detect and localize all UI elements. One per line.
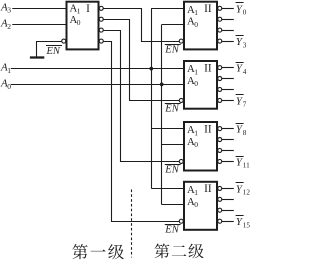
U4 output pin bubble 2 xyxy=(218,148,222,152)
U1 output pin bubble 1 xyxy=(99,17,103,21)
wire U5 output stub 2 xyxy=(222,210,234,212)
overline of EN-bar (U3) xyxy=(165,103,181,105)
decoder U2 (stage II 2-to-4, outputs Y0-Y3) body xyxy=(184,2,217,50)
U2 output pin bubble 1 xyxy=(218,17,222,21)
wire A0 branch to U5.A0 xyxy=(162,204,184,206)
overline of EN-bar (stage I) xyxy=(46,45,62,47)
wire U3 output stub 2 xyxy=(222,89,234,91)
svg-text:0: 0 xyxy=(194,20,198,29)
U2 output pin bubble 3 xyxy=(218,39,222,43)
U4 output pin bubble 1 xyxy=(218,138,222,142)
wire U5 output stub 3 xyxy=(222,221,234,223)
overline of Y3-bar xyxy=(236,35,244,37)
wire A0 branch vertical xyxy=(161,25,163,205)
U5 output pin bubble 2 xyxy=(218,208,222,212)
overline of Y11-bar xyxy=(236,156,244,158)
U3 output pin bubble 3 xyxy=(218,98,222,102)
svg-text:1: 1 xyxy=(194,67,198,76)
overline of Y0-bar xyxy=(236,2,244,4)
wire A0 bus horizontal xyxy=(11,84,184,86)
decoder U5 (stage II 2-to-4, outputs Y12-Y15) body xyxy=(184,182,217,230)
U4 EN input bubble xyxy=(179,159,183,163)
caption: second stage (di-er-ji) xyxy=(155,244,204,259)
svg-text:EN: EN xyxy=(164,104,179,115)
wire U1.Y1 to U3.EN xyxy=(103,20,179,101)
svg-text:II: II xyxy=(204,62,212,74)
svg-text:I: I xyxy=(86,3,90,15)
U5 output pin bubble 1 xyxy=(218,197,222,201)
svg-text:II: II xyxy=(204,3,212,15)
svg-text:II: II xyxy=(204,123,212,135)
svg-text:EN: EN xyxy=(164,165,179,176)
overline of Y4-bar xyxy=(236,62,244,64)
wire U3 output stub 0 xyxy=(222,67,234,69)
svg-text:0: 0 xyxy=(194,79,198,88)
wire U2 output stub 2 xyxy=(222,30,234,32)
decoder U3 (stage II 2-to-4, outputs Y4-Y7) body xyxy=(184,61,217,109)
wire U2 output stub 0 xyxy=(222,8,234,10)
U5 EN input bubble xyxy=(179,219,183,223)
wire A0 branch to U2.A0 xyxy=(162,24,184,26)
wire U1.Y2 to U4.EN xyxy=(103,31,179,162)
U2 output pin bubble 0 xyxy=(218,6,222,10)
wire A2 to U1.A0 xyxy=(12,24,66,26)
svg-text:1: 1 xyxy=(194,188,198,197)
svg-text:8: 8 xyxy=(243,129,247,137)
U5 output pin bubble 0 xyxy=(218,186,222,190)
U3 EN input bubble xyxy=(179,98,183,102)
wire A1 branch to U2.A1 xyxy=(151,8,184,10)
svg-text:0: 0 xyxy=(194,140,198,149)
U1 output pin bubble 2 xyxy=(99,28,103,32)
svg-text:EN: EN xyxy=(46,46,61,57)
wire A1 branch vertical xyxy=(151,8,153,188)
wire A1 branch to U4.A1 xyxy=(151,128,184,130)
svg-text:EN: EN xyxy=(164,224,179,235)
junction dot A0 bus xyxy=(160,83,164,87)
svg-text:1: 1 xyxy=(194,8,198,17)
overline of Y7-bar xyxy=(236,94,244,96)
wire A0 branch to U4.A0 xyxy=(162,144,184,146)
wire U4 output stub 0 xyxy=(222,128,234,130)
overline of EN-bar (U5) xyxy=(165,224,181,226)
U4 output pin bubble 3 xyxy=(218,159,222,163)
svg-text:12: 12 xyxy=(243,189,250,197)
svg-text:0: 0 xyxy=(77,18,81,27)
svg-text:11: 11 xyxy=(243,162,250,170)
U2 EN input bubble xyxy=(179,39,183,43)
wire U1.Y0 to U2.EN xyxy=(103,9,179,42)
wire U2 output stub 1 xyxy=(222,19,234,21)
svg-text:1: 1 xyxy=(194,128,198,137)
U1 output pin bubble 3 xyxy=(99,39,103,43)
wire U2 output stub 3 xyxy=(222,41,234,43)
U4 output pin bubble 0 xyxy=(218,127,222,131)
overline of EN-bar (U2) xyxy=(165,44,181,46)
decoder U4 (stage II 2-to-4, outputs Y8-Y11) body xyxy=(184,122,217,171)
decoder U1 (stage I 2-to-4) body xyxy=(67,2,99,50)
svg-text:1: 1 xyxy=(77,7,81,16)
ground symbol xyxy=(30,56,44,58)
wire U1.EN to ground xyxy=(37,42,62,57)
overline of Y15-bar xyxy=(236,215,244,217)
U2 output pin bubble 2 xyxy=(218,28,222,32)
svg-text:1: 1 xyxy=(7,66,11,75)
wire U4 output stub 2 xyxy=(222,150,234,152)
U5 output pin bubble 3 xyxy=(218,219,222,223)
wire A3 to U1.A1 xyxy=(12,8,66,10)
caption: first stage (di-yi-ji) xyxy=(72,244,123,259)
svg-text:2: 2 xyxy=(7,22,11,31)
svg-text:II: II xyxy=(204,183,212,195)
wire U4 output stub 1 xyxy=(222,139,234,141)
svg-text:3: 3 xyxy=(7,6,11,15)
wire U5 output stub 0 xyxy=(222,188,234,190)
U1 output pin bubble 0 xyxy=(99,6,103,10)
svg-text:7: 7 xyxy=(243,101,247,109)
wire A1 bus horizontal xyxy=(11,68,184,70)
svg-text:4: 4 xyxy=(243,68,247,76)
svg-text:0: 0 xyxy=(194,200,198,209)
U3 output pin bubble 0 xyxy=(218,66,222,70)
overline of Y12-bar xyxy=(236,182,244,184)
wire A1 branch to U5.A1 xyxy=(151,188,184,190)
dashed stage divider line xyxy=(131,190,133,258)
svg-text:0: 0 xyxy=(7,82,11,91)
svg-text:15: 15 xyxy=(243,221,250,229)
U1 EN input bubble xyxy=(62,39,66,43)
overline of Y8-bar xyxy=(236,123,244,125)
svg-text:EN: EN xyxy=(164,44,179,55)
svg-text:0: 0 xyxy=(243,9,247,17)
wire U3 output stub 1 xyxy=(222,78,234,80)
U3 output pin bubble 2 xyxy=(218,87,222,91)
wire U1.Y3 to U5.EN xyxy=(103,42,179,222)
wire U3 output stub 3 xyxy=(222,100,234,102)
svg-text:3: 3 xyxy=(243,41,247,49)
wire U5 output stub 1 xyxy=(222,199,234,201)
overline of EN-bar (U4) xyxy=(165,164,181,166)
U3 output pin bubble 1 xyxy=(218,77,222,81)
wire U4 output stub 3 xyxy=(222,161,234,163)
junction dot A1 bus xyxy=(149,67,153,71)
